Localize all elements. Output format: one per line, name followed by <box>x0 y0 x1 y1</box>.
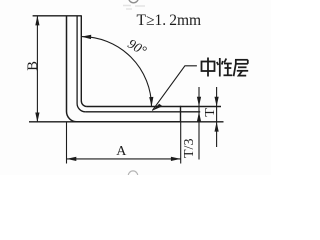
svg-text:B: B <box>25 61 41 71</box>
arrow B bottom <box>35 113 39 123</box>
svg-text:T/3: T/3 <box>182 139 197 158</box>
arrow arc bottom end (points down at leg top edge) <box>149 97 153 107</box>
neutral layer line vertical part <box>77 16 85 112</box>
arrow B top <box>35 16 39 26</box>
label 层 (hand-drawn strokes) <box>234 60 249 76</box>
watermark smudge <box>123 6 145 10</box>
arrow T upper (points down to top edge) <box>215 97 219 107</box>
90 degree dimension arc <box>81 37 151 107</box>
dimension A line <box>67 158 181 160</box>
right end cap of horizontal leg <box>180 106 182 123</box>
bottom edge line + B bottom extension + T bottom extension <box>29 121 224 123</box>
arrow T lower (points up to bottom edge) <box>215 122 219 132</box>
dimension T line <box>216 87 218 147</box>
svg-text:T: T <box>203 108 218 117</box>
label 性 (hand-drawn strokes) <box>217 58 233 77</box>
dimension A extension line left <box>66 123 68 164</box>
arrow arc left end (points left at leg inner edge) <box>81 35 91 39</box>
top end cap of vertical leg + B top extension line <box>33 15 82 17</box>
label 中 (hand-drawn strokes) <box>202 58 215 77</box>
leader arrowhead (points down-left to neutral line) <box>152 104 162 111</box>
leader line for neutral layer label <box>152 66 197 111</box>
svg-text:T≥1. 2mm: T≥1. 2mm <box>137 12 202 29</box>
profile outer edge (left + bottom with rounded outer corner) <box>66 16 180 122</box>
dimension B line <box>36 16 38 123</box>
arrow T/3 lower (points up to neutral line) <box>197 112 201 122</box>
arrow A left <box>67 157 77 161</box>
svg-text:A: A <box>116 144 127 159</box>
profile inner edge (vertical leg right side with inner corner arc) <box>81 16 87 107</box>
dimension A extension line right <box>180 123 182 164</box>
horizontal leg top edge + extension to T dimension <box>87 106 221 108</box>
watermark circle top <box>129 0 139 3</box>
neutral layer line horizontal part + extension <box>85 111 200 113</box>
arrow A right <box>171 157 181 161</box>
watermark circle bottom <box>128 171 137 180</box>
arrow T/3 upper (points down to top edge) <box>197 97 201 107</box>
dimension T/3 line <box>198 87 200 160</box>
